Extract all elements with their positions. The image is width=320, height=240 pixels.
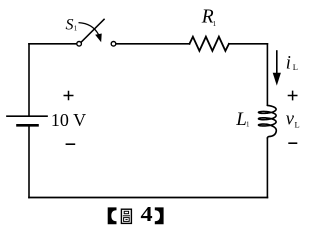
caption right bracket [155,207,164,224]
wire right vertical lower [266,138,268,197]
svg-text:4: 4 [141,202,154,225]
resistor R1 zigzag [190,37,229,51]
battery V1 long plate [7,115,47,117]
svg-text:1: 1 [74,24,78,32]
battery V1 short plate [18,124,38,127]
switch S1 blade [81,19,105,43]
inductor plus sign [288,91,298,101]
wire switch to resistor [116,43,190,45]
wire left vertical [28,44,30,116]
battery plus sign [64,91,74,100]
switch S1 right contact circle [111,42,116,47]
svg-text:v: v [286,109,295,129]
current arrow iL shaft [276,50,278,74]
switch arc arrowhead [96,34,102,42]
caption left bracket [108,207,117,224]
wire battery to bottom [28,127,30,198]
switch S1 left contact circle [77,42,82,47]
svg-text:L: L [293,62,298,72]
current arrow iL head [273,73,281,86]
switch closing arc [79,23,99,35]
svg-text:i: i [286,54,291,74]
wire resistor to corner [229,43,268,45]
battery minus sign [66,143,76,145]
wire right vertical upper [266,44,268,105]
svg-text:10 V: 10 V [51,110,86,130]
caption character tu (figure) outer box [121,209,131,223]
inductor minus sign [288,142,297,144]
inductor L1 coil [259,105,277,138]
svg-text:1: 1 [213,20,217,28]
svg-text:L: L [295,119,300,129]
wire bottom horizontal [29,197,267,199]
svg-text:S: S [66,16,74,33]
wire top-left horizontal [29,43,77,45]
svg-text:1: 1 [246,121,250,129]
